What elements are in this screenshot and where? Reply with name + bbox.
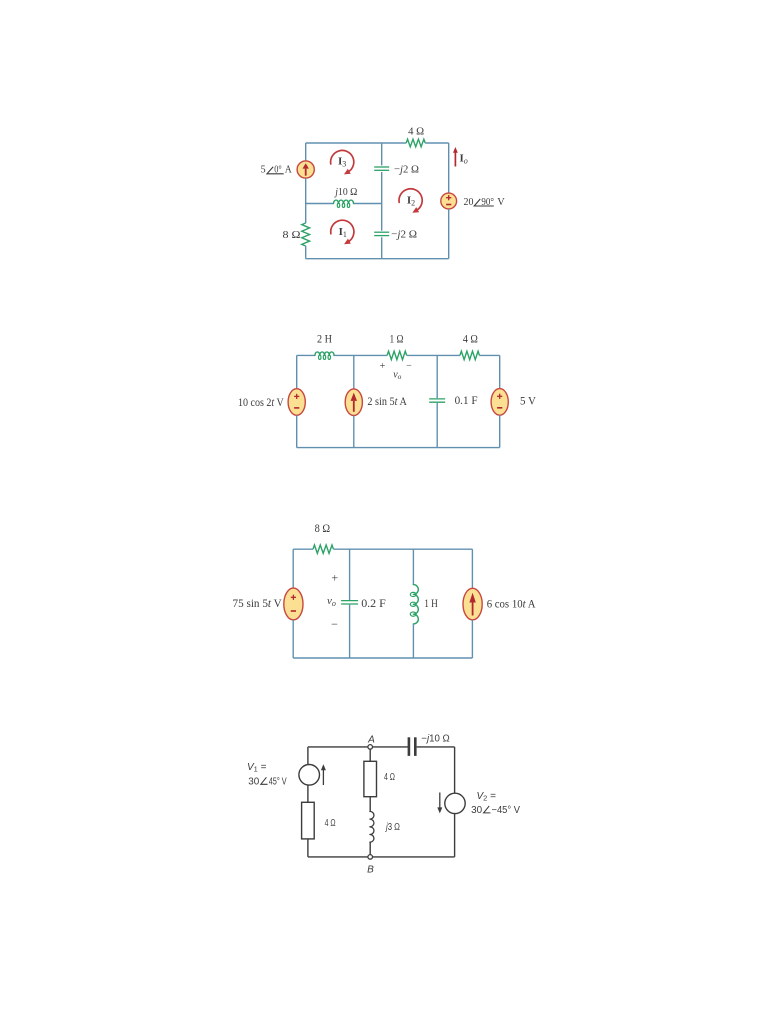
wire left upper [307,747,309,765]
wire middle lower [369,842,371,854]
svg-text:I1: I1 [339,226,347,239]
wire branch inductor upper [412,549,414,584]
svg-text:j10 Ω: j10 Ω [334,186,358,198]
wire left upper [296,355,298,388]
capacitor 0.2F [341,600,358,602]
circuit 3: parallel RLC with two sources [233,523,536,658]
mesh arrow I1 [331,220,354,242]
current source 5A [297,161,314,178]
svg-text:I2: I2 [407,195,415,208]
wire left upper [292,549,294,588]
inductor 2H [315,352,334,355]
svg-text:−: − [406,361,412,372]
svg-text:45° V: 45° V [269,777,287,788]
svg-text:−j2 Ω: −j2 Ω [391,229,417,241]
voltage source 5V [491,389,508,416]
svg-text:−j2 Ω: −j2 Ω [394,163,419,175]
wire top right [417,746,455,748]
wire right lower [448,209,450,259]
wire left upper [305,143,307,161]
wire top segments [293,548,313,550]
svg-text:vo: vo [393,370,401,382]
svg-text:V: V [497,196,505,208]
svg-text:8 Ω: 8 Ω [315,523,331,535]
wire right lower [454,814,456,857]
wire left middle [305,178,307,223]
svg-text:90°: 90° [481,196,494,208]
wire left lower [307,839,309,857]
svg-text:j3 Ω: j3 Ω [384,822,400,833]
svg-text:A: A [285,164,292,176]
svg-text:−j10 Ω: −j10 Ω [421,733,450,744]
wire right upper [454,747,456,793]
wire right lower [499,415,501,447]
arrow V1 up [322,769,324,786]
svg-text:V2 =: V2 = [477,791,497,803]
node B [368,855,373,860]
resistor 4ohm top [406,139,425,147]
wire top-right segment [425,142,449,144]
svg-text:0.2 F: 0.2 F [361,596,386,610]
svg-text:I3: I3 [338,156,346,169]
wire top-left segment [306,142,407,144]
svg-text:V1 =: V1 = [247,762,267,774]
capacitor -j2 upper [374,166,389,168]
node A [368,745,373,750]
voltage source 10cos2t [288,389,305,416]
svg-text:30: 30 [471,805,482,816]
svg-text:0.1 F: 0.1 F [455,393,478,407]
voltage source 75sin5t [284,588,303,620]
wire branch capacitor lower [349,605,351,658]
resistor 8ohm top [313,545,334,553]
svg-text:10 cos 2t V: 10 cos 2t V [238,395,284,409]
svg-text:2 H: 2 H [317,334,332,346]
mesh arrow I3 [331,150,354,172]
wire right lower [471,620,473,658]
svg-text:6 cos 10t A: 6 cos 10t A [487,597,536,611]
wire middle horizontal [306,203,334,205]
svg-text:−45° V: −45° V [492,805,521,816]
resistor 4ohm [460,351,480,359]
svg-text:5: 5 [261,164,266,176]
wire bottom right [373,856,455,858]
mesh arrow I2 [399,189,422,211]
wire branch capacitor upper [349,549,351,600]
capacitor -j2 lower [374,231,389,233]
wire left between source and resistor [307,785,309,802]
svg-text:A: A [367,734,375,745]
svg-text:20: 20 [464,196,474,208]
source V2 circle [445,793,465,813]
svg-text:0°: 0° [274,164,282,176]
svg-text:1 Ω: 1 Ω [390,334,404,346]
wire left lower [292,620,294,658]
wire top segments [297,354,315,356]
current source 6cos10t [463,588,482,620]
wire branch capacitor upper [436,355,438,398]
resistor 1ohm [387,351,407,359]
capacitor -j10 plates [408,737,411,756]
wire branch current source upper [353,355,355,389]
svg-text:4 Ω: 4 Ω [384,772,395,783]
wire left lower [296,415,298,447]
circuit 4: black phasor circuit with nodes A and B [247,733,520,875]
circuit 1: mesh-current phasor circuit [261,125,505,258]
inductor 1H vertical [413,585,418,624]
wire branch capacitor lower [436,403,438,448]
svg-text:−: − [331,617,338,631]
wire middle vertical [381,143,383,165]
circuit 2: sinusoidal sources circuit [238,334,536,448]
resistor 4ohm middle rect [364,761,377,796]
wire bottom [293,657,472,659]
wire right upper [448,143,450,193]
wire right upper [471,549,473,588]
wire bottom left [308,856,368,858]
wire right upper [499,355,501,388]
svg-text:+: + [380,361,386,372]
arrow V2 down [439,793,441,810]
wire branch current source lower [353,416,355,448]
source V1 circle [299,765,320,786]
svg-text:B: B [367,865,374,876]
svg-text:+: + [331,571,338,585]
svg-text:75 sin 5t V: 75 sin 5t V [233,596,283,610]
svg-text:4 Ω: 4 Ω [325,818,336,829]
svg-text:vo: vo [327,595,336,608]
current source 2sin5t [345,389,362,416]
arrow Io [454,152,456,167]
wire bottom [306,258,449,260]
svg-text:30: 30 [248,777,259,788]
wire bottom [297,447,500,449]
inductor j3 ohm coil [370,811,374,842]
wire branch inductor lower [412,624,414,658]
wire top left [308,746,368,748]
wire top middle [373,746,409,748]
svg-text:5 V: 5 V [520,393,536,407]
svg-text:1 H: 1 H [424,596,438,610]
wire middle upper [369,749,371,761]
svg-text:4 Ω: 4 Ω [408,125,424,137]
resistor 4ohm left rect [302,802,315,839]
wire left lower [305,246,307,259]
wire middle between resistor and coil [369,797,371,812]
svg-text:2 sin 5t A: 2 sin 5t A [367,394,407,408]
svg-text:8 Ω: 8 Ω [283,229,301,241]
capacitor 0.1F [429,398,445,400]
voltage source 20V [441,193,457,209]
inductor j10 ohm [334,200,354,203]
svg-text:Io: Io [460,153,468,166]
svg-text:4 Ω: 4 Ω [463,334,478,346]
resistor 8ohm left [302,223,310,246]
